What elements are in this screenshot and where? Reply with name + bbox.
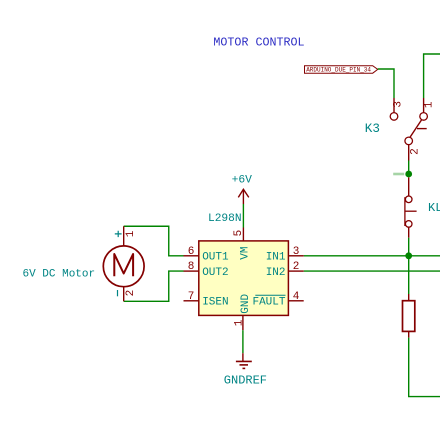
pin 5 VM top — [242, 228, 244, 241]
svg-text:3: 3 — [393, 101, 405, 108]
pin 7 ISEN — [184, 300, 199, 302]
pin 3 IN1 — [288, 255, 303, 257]
pin 3 line — [393, 98, 395, 113]
svg-text:7: 7 — [188, 291, 195, 303]
contact bar — [417, 128, 427, 130]
svg-text:2: 2 — [293, 261, 300, 273]
plus mark — [115, 231, 122, 237]
pin 2 line — [123, 287, 125, 302]
pin 1 line — [408, 177, 410, 196]
svg-text:+6V: +6V — [232, 174, 253, 186]
body circle — [103, 246, 144, 287]
wire GND pin to ground — [242, 330, 244, 353]
motor M1 — [23, 226, 145, 301]
wire IN1 row to right edge — [304, 255, 440, 257]
svg-text:OUT1: OUT1 — [202, 252, 229, 264]
wire IN2 row to right edge — [304, 270, 440, 272]
svg-text:4: 4 — [293, 291, 300, 303]
svg-text:L298N: L298N — [208, 213, 242, 225]
junction dot 2 — [405, 252, 412, 259]
pin 4 FAULT — [288, 300, 303, 302]
letter M — [114, 254, 133, 276]
pin 1 circle — [405, 196, 412, 203]
svg-text:3: 3 — [293, 246, 300, 258]
svg-text:ARDUINO_DUE_PIN_34: ARDUINO_DUE_PIN_34 — [306, 67, 371, 74]
screw tick — [405, 210, 417, 212]
wire motor + to OUT1 — [124, 226, 184, 256]
terminal KL — [405, 177, 440, 237]
pin top — [408, 294, 410, 301]
svg-text:FAULT: FAULT — [252, 297, 285, 309]
pin 1 GND bottom — [242, 315, 244, 330]
pin 2 line — [408, 227, 410, 238]
op-amp U? : motor driver IC L298N — [184, 213, 304, 330]
svg-text:VM: VM — [240, 246, 252, 259]
wire relay pin 2 to junction — [408, 161, 410, 175]
junction dot — [405, 171, 412, 178]
wire junction 2 down to resistor — [408, 256, 410, 294]
svg-text:KL: KL — [428, 201, 440, 215]
svg-text:1: 1 — [234, 319, 246, 326]
svg-text:8: 8 — [188, 261, 195, 273]
svg-text:OUT2: OUT2 — [202, 267, 228, 279]
wire KL to junction 2 — [408, 238, 410, 256]
wire +6V to VM pin — [242, 204, 244, 228]
minus mark — [117, 290, 119, 296]
svg-text:1: 1 — [125, 230, 137, 237]
svg-text:5: 5 — [233, 230, 245, 237]
body — [403, 301, 415, 332]
power symbol +6V — [232, 174, 253, 204]
relay K3 (SPDT contact) — [365, 98, 436, 161]
pin 8 OUT2 — [184, 270, 199, 272]
ground GNDREF — [224, 353, 267, 387]
wire from label to relay pin 3 — [378, 69, 394, 98]
pin 1 line — [123, 226, 125, 246]
global label ARDUINO_DUE_PIN_34 — [305, 66, 378, 74]
pin 2 circle — [405, 221, 412, 228]
svg-text:IN1: IN1 — [266, 252, 286, 264]
pin 2 line — [408, 145, 410, 161]
pin 6 OUT1 — [184, 255, 199, 257]
svg-text:K3: K3 — [365, 122, 380, 136]
wire from relay pin 1 to top edge — [424, 54, 440, 98]
pin 2 circle — [405, 137, 413, 145]
pale wire stub — [393, 173, 404, 176]
body bar — [404, 197, 406, 226]
pin 1 line — [423, 98, 425, 113]
svg-text:2: 2 — [125, 290, 137, 297]
svg-text:6V DC Motor: 6V DC Motor — [23, 268, 96, 280]
svg-text:MOTOR CONTROL: MOTOR CONTROL — [213, 36, 304, 50]
body — [199, 241, 289, 316]
pin 1 circle — [420, 113, 428, 121]
svg-text:6: 6 — [188, 246, 195, 258]
svg-text:GND: GND — [240, 293, 252, 313]
switch arm — [410, 120, 422, 139]
pin 2 IN2 — [288, 270, 303, 272]
pin bottom — [408, 331, 410, 337]
wire motor - to OUT2 — [124, 271, 184, 301]
resistor R — [403, 294, 415, 338]
svg-text:GNDREF: GNDREF — [224, 374, 267, 388]
wire resistor to bottom right edge — [409, 338, 440, 397]
svg-text:ISEN: ISEN — [202, 297, 228, 309]
svg-text:2: 2 — [410, 148, 422, 155]
pin 3 circle — [390, 113, 398, 121]
svg-text:IN2: IN2 — [266, 267, 286, 279]
svg-text:1: 1 — [423, 101, 435, 108]
